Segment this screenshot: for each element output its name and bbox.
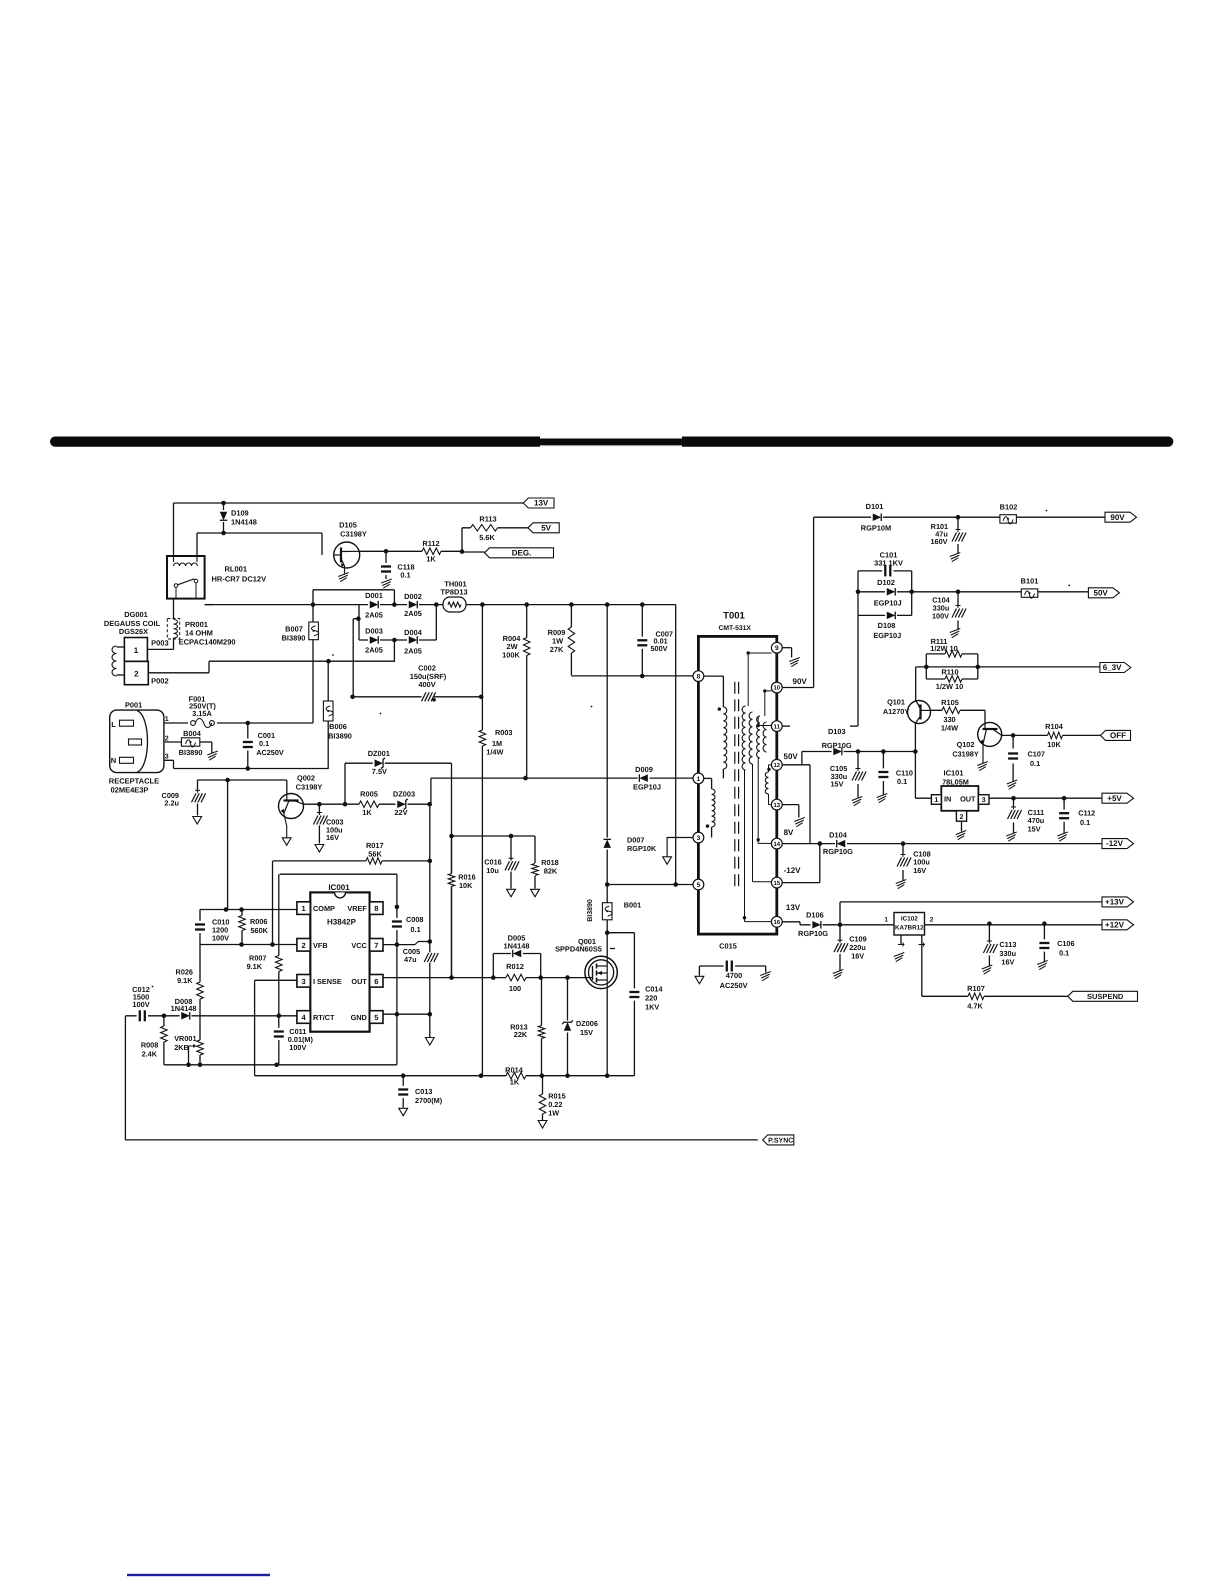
svg-text:5.6K: 5.6K <box>479 533 495 542</box>
svg-text:6_3V: 6_3V <box>1103 663 1122 672</box>
svg-text:COMP: COMP <box>313 904 335 913</box>
svg-text:9.1K: 9.1K <box>177 976 193 985</box>
svg-text:90V: 90V <box>793 677 808 686</box>
svg-text:Q101: Q101 <box>887 698 905 707</box>
svg-text:B101: B101 <box>1021 577 1039 586</box>
svg-text:82K: 82K <box>544 866 558 875</box>
svg-text:RECEPTACLE: RECEPTACLE <box>109 777 159 786</box>
svg-text:RGP10M: RGP10M <box>861 524 891 533</box>
svg-text:L: L <box>111 720 116 729</box>
svg-text:2KB: 2KB <box>174 1043 189 1052</box>
svg-text:220: 220 <box>645 994 657 1003</box>
svg-text:10K: 10K <box>459 881 473 890</box>
svg-text:BI3890: BI3890 <box>179 748 203 757</box>
svg-text:2.2u: 2.2u <box>164 799 179 808</box>
svg-text:100: 100 <box>509 984 521 993</box>
svg-text:D104: D104 <box>829 830 848 839</box>
svg-text:16V: 16V <box>326 833 339 842</box>
svg-text:C3198Y: C3198Y <box>340 530 367 539</box>
svg-text:BI3890: BI3890 <box>587 899 594 922</box>
svg-text:27K: 27K <box>550 645 564 654</box>
svg-text:8: 8 <box>697 674 701 681</box>
svg-text:3: 3 <box>982 797 986 804</box>
svg-text:R006: R006 <box>250 917 267 926</box>
svg-text:56K: 56K <box>368 849 382 858</box>
svg-text:331 1KV: 331 1KV <box>874 558 903 567</box>
svg-text:2700(M): 2700(M) <box>415 1096 443 1105</box>
svg-text:A1270Y: A1270Y <box>883 707 910 716</box>
svg-text:02ME4E3P: 02ME4E3P <box>111 785 149 794</box>
svg-text:B102: B102 <box>1000 503 1018 512</box>
svg-text:6: 6 <box>374 977 378 986</box>
svg-text:1K: 1K <box>510 1078 520 1087</box>
svg-text:1/4W: 1/4W <box>941 723 958 732</box>
svg-text:90V: 90V <box>1110 513 1125 522</box>
svg-text:C106: C106 <box>1057 939 1074 948</box>
svg-text:R014: R014 <box>505 1066 524 1075</box>
svg-text:I SENSE: I SENSE <box>313 977 342 986</box>
svg-text:TP8D13: TP8D13 <box>440 587 467 596</box>
svg-text:VFB: VFB <box>313 941 328 950</box>
svg-text:B004: B004 <box>183 729 202 738</box>
svg-text:400V: 400V <box>418 680 435 689</box>
svg-text:DG001: DG001 <box>124 610 147 619</box>
svg-text:12: 12 <box>773 762 780 769</box>
svg-text:1K: 1K <box>426 555 436 564</box>
svg-text:1K: 1K <box>362 808 372 817</box>
svg-text:R015: R015 <box>548 1091 565 1100</box>
svg-text:OUT: OUT <box>960 795 976 804</box>
svg-text:5: 5 <box>697 882 701 889</box>
svg-text:50V: 50V <box>784 752 799 761</box>
svg-text:2A05: 2A05 <box>404 609 422 618</box>
svg-text:10K: 10K <box>1047 740 1061 749</box>
svg-text:B006: B006 <box>329 722 347 731</box>
svg-text:R110: R110 <box>941 667 958 676</box>
svg-text:1/4W: 1/4W <box>486 748 503 757</box>
svg-text:C014: C014 <box>645 985 663 994</box>
svg-text:2: 2 <box>165 735 169 742</box>
svg-text:R113: R113 <box>479 515 496 524</box>
svg-text:R107: R107 <box>967 984 985 993</box>
svg-text:100V: 100V <box>289 1043 306 1052</box>
svg-text:R005: R005 <box>360 790 378 799</box>
svg-text:VREF: VREF <box>347 904 367 913</box>
svg-text:IN: IN <box>944 795 951 804</box>
svg-text:R104: R104 <box>1045 722 1064 731</box>
svg-text:R008: R008 <box>141 1041 158 1050</box>
svg-text:R003: R003 <box>495 728 512 737</box>
svg-text:OUT: OUT <box>351 977 367 986</box>
svg-text:7: 7 <box>374 941 378 950</box>
svg-text:Q102: Q102 <box>957 740 975 749</box>
svg-text:C013: C013 <box>415 1087 432 1096</box>
svg-text:100V: 100V <box>212 934 229 943</box>
svg-text:11: 11 <box>774 723 781 730</box>
svg-text:10u: 10u <box>486 866 499 875</box>
svg-text:-12V: -12V <box>784 866 802 875</box>
svg-text:5V: 5V <box>541 523 551 532</box>
svg-text:22K: 22K <box>514 1030 528 1039</box>
svg-text:EGP10J: EGP10J <box>874 599 902 608</box>
svg-text:78L05M: 78L05M <box>942 777 969 786</box>
svg-text:14: 14 <box>773 841 780 848</box>
svg-text:+13V: +13V <box>1105 898 1125 907</box>
svg-text:D109: D109 <box>231 509 249 518</box>
svg-text:D002: D002 <box>404 592 422 601</box>
svg-text:H3842P: H3842P <box>327 918 357 927</box>
svg-text:C112: C112 <box>1078 809 1095 818</box>
svg-text:560K: 560K <box>251 926 269 935</box>
svg-text:7.5V: 7.5V <box>372 767 387 776</box>
svg-text:160V: 160V <box>930 537 947 546</box>
svg-text:GND: GND <box>351 1013 367 1022</box>
svg-text:2A05: 2A05 <box>365 611 383 620</box>
svg-text:15V: 15V <box>1028 824 1041 833</box>
svg-text:+5V: +5V <box>1107 794 1122 803</box>
svg-text:D009: D009 <box>635 765 653 774</box>
svg-text:C107: C107 <box>1028 750 1045 759</box>
svg-text:8: 8 <box>374 904 378 913</box>
svg-text:AC250V: AC250V <box>720 981 748 990</box>
svg-text:3: 3 <box>697 835 701 842</box>
svg-text:2A05: 2A05 <box>404 647 422 656</box>
svg-text:0.1: 0.1 <box>1059 949 1069 958</box>
svg-text:DZ003: DZ003 <box>393 790 415 799</box>
svg-text:RGP10G: RGP10G <box>798 929 828 938</box>
svg-text:1W: 1W <box>548 1109 559 1118</box>
svg-text:8V: 8V <box>784 828 794 837</box>
svg-text:C015: C015 <box>719 942 737 951</box>
svg-text:0.1: 0.1 <box>259 739 269 748</box>
svg-text:1N4148: 1N4148 <box>504 941 530 950</box>
svg-text:1/2W 10: 1/2W 10 <box>936 682 964 691</box>
svg-text:C3198Y: C3198Y <box>296 783 323 792</box>
svg-text:D001: D001 <box>365 591 383 600</box>
svg-text:16V: 16V <box>913 866 926 875</box>
svg-text:CMT-531X: CMT-531X <box>718 625 751 632</box>
svg-text:IC101: IC101 <box>943 769 963 778</box>
svg-text:3.15A: 3.15A <box>192 709 212 718</box>
svg-text:D101: D101 <box>866 502 884 511</box>
svg-text:0.1: 0.1 <box>400 571 410 580</box>
svg-text:1/2W 10: 1/2W 10 <box>930 644 958 653</box>
svg-text:2: 2 <box>302 941 306 950</box>
svg-text:SUSPEND: SUSPEND <box>1087 992 1124 1001</box>
svg-text:2: 2 <box>930 917 934 924</box>
svg-text:VR001: VR001 <box>174 1034 196 1043</box>
svg-text:1: 1 <box>697 776 701 783</box>
svg-text:1N4148: 1N4148 <box>231 518 257 527</box>
svg-text:BI3890: BI3890 <box>282 634 306 643</box>
svg-text:R112: R112 <box>422 539 439 548</box>
svg-text:B001: B001 <box>624 901 641 910</box>
svg-text:C008: C008 <box>406 915 423 924</box>
svg-text:R105: R105 <box>941 698 959 707</box>
svg-text:13V: 13V <box>786 903 801 912</box>
svg-text:3: 3 <box>302 977 306 986</box>
svg-text:IC001: IC001 <box>328 883 350 892</box>
svg-text:C3198Y: C3198Y <box>952 750 979 759</box>
svg-text:D102: D102 <box>877 578 895 587</box>
svg-text:15V: 15V <box>831 779 844 788</box>
svg-text:EGP10J: EGP10J <box>873 631 901 640</box>
svg-text:P003: P003 <box>151 639 169 648</box>
svg-text:DZ006: DZ006 <box>576 1019 598 1028</box>
svg-text:RT/CT: RT/CT <box>313 1013 335 1022</box>
svg-text:4700: 4700 <box>726 971 742 980</box>
svg-text:P002: P002 <box>151 676 169 685</box>
svg-text:100V: 100V <box>132 1000 149 1009</box>
svg-text:IC102: IC102 <box>901 916 918 923</box>
svg-text:N: N <box>111 756 116 765</box>
svg-text:DGS26X: DGS26X <box>119 627 148 636</box>
svg-text:-12V: -12V <box>1106 839 1124 848</box>
svg-text:1: 1 <box>165 716 169 723</box>
svg-text:KA7BR12: KA7BR12 <box>895 925 924 932</box>
svg-text:10: 10 <box>773 685 780 692</box>
svg-text:2: 2 <box>960 814 964 821</box>
svg-text:1: 1 <box>884 917 888 924</box>
svg-text:1: 1 <box>934 797 938 804</box>
svg-text:16: 16 <box>773 919 780 926</box>
svg-text:D105: D105 <box>339 521 357 530</box>
svg-text:1N4148: 1N4148 <box>171 1004 197 1013</box>
svg-text:0.1: 0.1 <box>411 925 421 934</box>
svg-text:2: 2 <box>134 670 139 679</box>
svg-text:1KV: 1KV <box>645 1003 659 1012</box>
svg-text:3: 3 <box>165 754 169 761</box>
svg-text:500V: 500V <box>651 644 668 653</box>
svg-text:2A05: 2A05 <box>365 645 383 654</box>
svg-text:C113: C113 <box>999 940 1016 949</box>
svg-text:D003: D003 <box>365 627 383 636</box>
svg-text:100V: 100V <box>932 611 949 620</box>
svg-text:Q002: Q002 <box>297 774 315 783</box>
svg-text:13: 13 <box>773 802 780 809</box>
svg-text:5: 5 <box>374 1013 378 1022</box>
svg-text:D103: D103 <box>828 727 846 736</box>
svg-text:AC250V: AC250V <box>256 748 284 757</box>
svg-text:P.SYNC: P.SYNC <box>768 1138 793 1145</box>
svg-text:ECPAC140M290: ECPAC140M290 <box>179 638 236 647</box>
svg-text:14 OHM: 14 OHM <box>185 629 213 638</box>
svg-text:1: 1 <box>302 904 306 913</box>
svg-text:2.4K: 2.4K <box>142 1050 158 1059</box>
svg-text:P001: P001 <box>125 700 142 709</box>
svg-text:VCC: VCC <box>351 941 367 950</box>
svg-text:OFF: OFF <box>1110 731 1126 740</box>
svg-text:0.1: 0.1 <box>897 777 907 786</box>
svg-text:0.1: 0.1 <box>1080 818 1090 827</box>
svg-text:B007: B007 <box>285 625 303 634</box>
svg-text:DZ001: DZ001 <box>368 749 390 758</box>
svg-text:RL001: RL001 <box>225 565 248 574</box>
svg-text:D004: D004 <box>404 628 423 637</box>
svg-text:EGP10J: EGP10J <box>633 783 661 792</box>
svg-text:4.7K: 4.7K <box>967 1001 983 1010</box>
svg-text:9.1K: 9.1K <box>247 962 263 971</box>
svg-text:0.1: 0.1 <box>1030 759 1040 768</box>
svg-text:HR-CR7 DC12V: HR-CR7 DC12V <box>212 575 267 584</box>
svg-text:9: 9 <box>775 645 779 652</box>
svg-text:50V: 50V <box>1094 588 1109 597</box>
svg-text:RGP10G: RGP10G <box>823 847 853 856</box>
svg-text:22V: 22V <box>394 808 407 817</box>
svg-text:15: 15 <box>773 880 780 887</box>
svg-text:DEG.: DEG. <box>512 548 532 557</box>
svg-text:SPPD4N60S5: SPPD4N60S5 <box>555 945 602 954</box>
svg-text:D108: D108 <box>878 621 896 630</box>
svg-text:RGP10K: RGP10K <box>627 844 657 853</box>
svg-text:RGP10G: RGP10G <box>822 741 852 750</box>
svg-text:T001: T001 <box>723 611 745 622</box>
svg-text:BI3890: BI3890 <box>328 732 352 741</box>
svg-text:R012: R012 <box>506 962 524 971</box>
svg-text:15V: 15V <box>580 1028 593 1037</box>
svg-text:1: 1 <box>134 646 139 655</box>
svg-text:+12V: +12V <box>1105 920 1125 929</box>
svg-text:47u: 47u <box>404 955 417 964</box>
svg-text:13V: 13V <box>534 499 549 508</box>
svg-text:D106: D106 <box>806 911 824 920</box>
svg-text:100K: 100K <box>502 651 520 660</box>
svg-text:16V: 16V <box>851 951 864 960</box>
svg-text:16V: 16V <box>1001 957 1014 966</box>
